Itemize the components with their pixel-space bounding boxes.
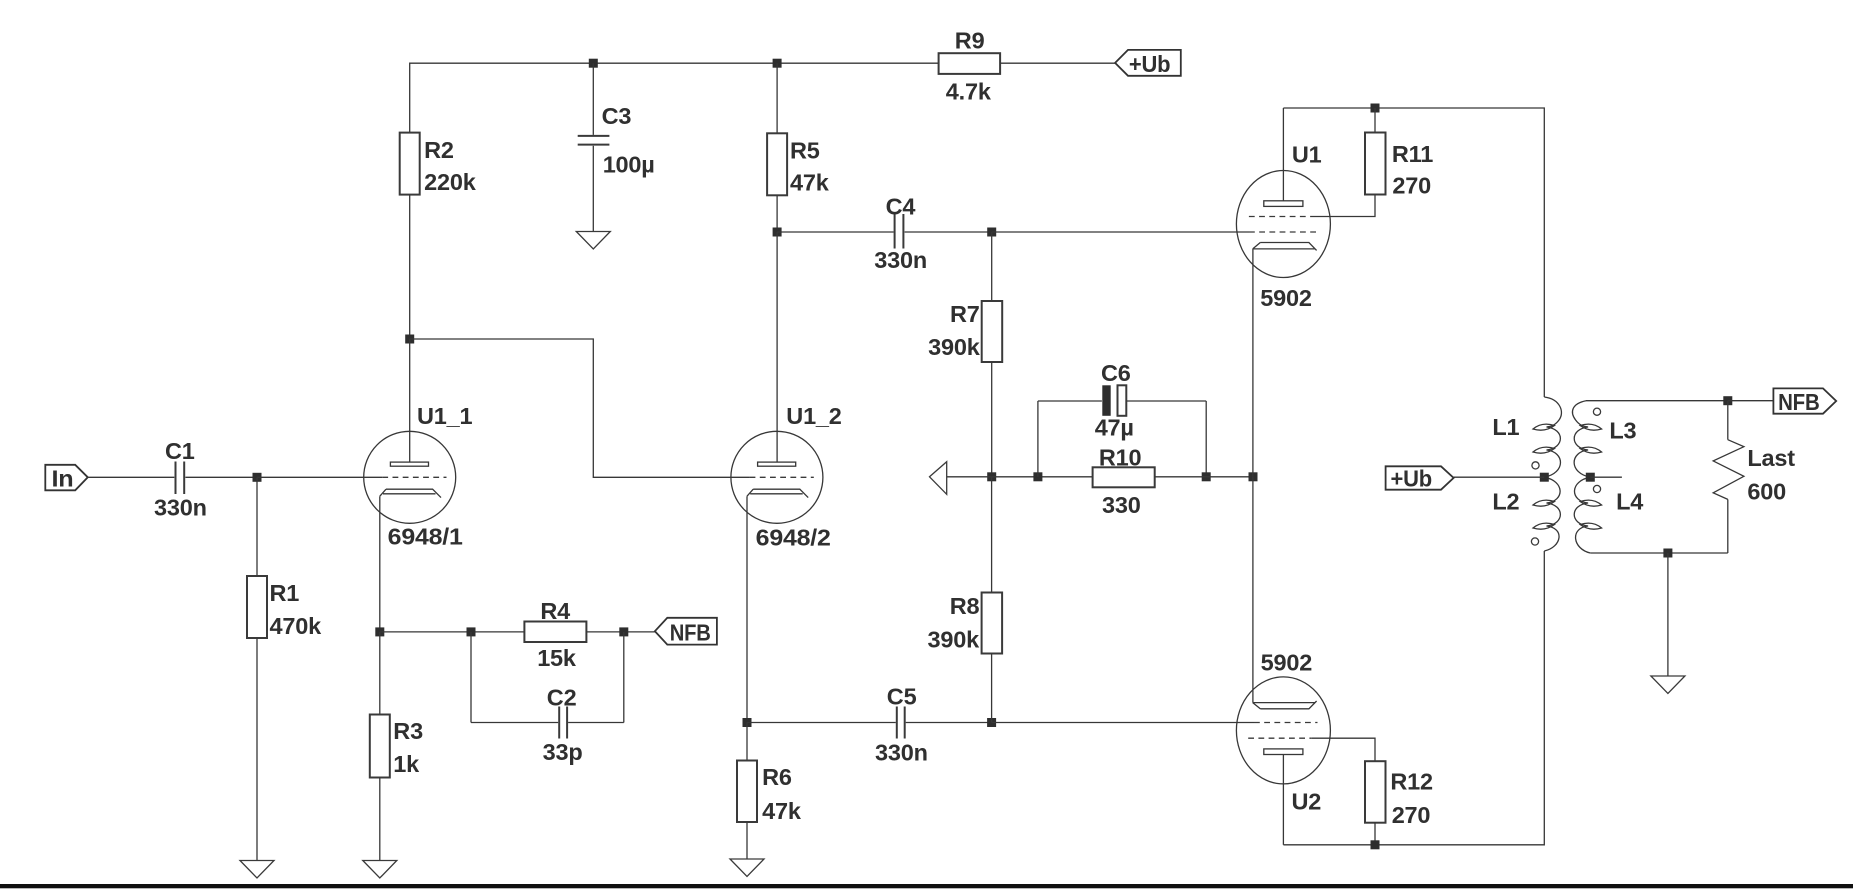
- U2 cathode: [1253, 701, 1317, 709]
- U2 screen grid dashes: [1248, 737, 1311, 739]
- wire R4 to NFB flag: [586, 631, 655, 633]
- svg-text:L3: L3: [1609, 418, 1636, 444]
- svg-text:NFB: NFB: [670, 619, 711, 645]
- wire U1_1 cathode to node C: [379, 496, 381, 632]
- wire node F to U1_2 anode: [776, 232, 778, 462]
- ground L4: [1651, 676, 1685, 694]
- node J junction R7/R8/row: [987, 472, 996, 481]
- capacitor C5: [875, 683, 928, 765]
- svg-text:R10: R10: [1099, 445, 1142, 471]
- bottom border bar: [0, 884, 1853, 888]
- U2 anode lead: [1282, 755, 1284, 845]
- wire node R to NFB flag: [1728, 400, 1774, 402]
- pentode U1: [1236, 142, 1330, 312]
- node F junction R5/C4 row: [773, 228, 782, 237]
- resistor R1: [247, 576, 322, 639]
- U1 screen grid dashes: [1249, 216, 1311, 218]
- triode U1_1: [364, 403, 473, 550]
- svg-text:C3: C3: [602, 103, 632, 129]
- node In connector flag: [45, 465, 88, 492]
- svg-text:5902: 5902: [1260, 285, 1312, 311]
- wire node I to U2 grid: [992, 722, 1254, 724]
- ground C3: [576, 232, 610, 250]
- wire In to C1: [88, 476, 175, 478]
- U1 control grid dashes: [1249, 231, 1320, 233]
- wire bottom rail: [1283, 551, 1544, 845]
- node L junction C6 right: [1202, 472, 1211, 481]
- inductor L3 secondary upper: [1572, 401, 1636, 478]
- resistor R6: [737, 761, 802, 824]
- svg-text:220k: 220k: [424, 169, 477, 195]
- wire C6 left branch: [1037, 401, 1039, 477]
- node Q junction secondary center tap: [1586, 473, 1595, 482]
- wire U1_2 cathode to node H: [746, 496, 748, 722]
- resistor R2: [400, 133, 477, 195]
- svg-text:470k: 470k: [270, 613, 323, 639]
- resistor R12: [1365, 761, 1433, 828]
- ground R6: [730, 859, 764, 877]
- node R junction NFB/Last: [1723, 396, 1732, 405]
- wire L3 top to NFB node: [1586, 400, 1728, 402]
- svg-text:R5: R5: [790, 137, 820, 163]
- node NFB mid connector flag: [655, 618, 717, 646]
- node D junction C2 left: [467, 627, 476, 636]
- node C junction cathode/R3/R4: [375, 627, 384, 636]
- svg-text:In: In: [52, 465, 74, 491]
- svg-text:330: 330: [1102, 492, 1141, 518]
- wire rail to R5: [776, 63, 778, 133]
- wire top rail left section: [410, 63, 939, 132]
- svg-text:R7: R7: [950, 301, 980, 327]
- node O junction R12 bottom: [1371, 840, 1380, 849]
- capacitor C6 electrolytic: [1095, 360, 1134, 441]
- svg-text:47k: 47k: [790, 170, 830, 196]
- wire R8 to node I: [991, 654, 993, 723]
- wire node G to R7: [991, 232, 993, 301]
- svg-text:C1: C1: [165, 438, 195, 464]
- svg-text:100µ: 100µ: [603, 151, 655, 177]
- svg-text:R9: R9: [955, 27, 985, 53]
- wire node H to C5: [747, 722, 896, 724]
- node B junction R2/anode/coupling: [405, 335, 414, 344]
- svg-text:L4: L4: [1616, 489, 1643, 515]
- svg-text:5902: 5902: [1261, 650, 1313, 676]
- wire U1 cathode to node M: [1252, 249, 1254, 477]
- inductor L2 primary lower: [1492, 477, 1560, 551]
- wire node R to Last: [1727, 401, 1729, 440]
- svg-text:390k: 390k: [928, 334, 981, 360]
- wire C3 top lead: [592, 63, 594, 135]
- ground R3: [363, 861, 397, 879]
- wire C2 right branch: [623, 632, 625, 723]
- wire R12 bottom lead: [1374, 823, 1376, 845]
- wire C2 bottom left: [471, 722, 558, 724]
- wire coupling node B to U1_2 grid: [410, 339, 750, 477]
- resistor R5: [767, 133, 830, 195]
- wire L4 bottom row: [1590, 552, 1728, 554]
- node M junction cathodes: [1249, 472, 1258, 481]
- resistor R3: [370, 715, 423, 778]
- node +Ub bottom connector flag: [1386, 465, 1454, 491]
- wire R1 to ground: [256, 638, 258, 861]
- wire R11 top lead: [1374, 108, 1376, 133]
- U1_1 grid dashes: [382, 476, 446, 478]
- svg-text:+Ub: +Ub: [1391, 465, 1433, 491]
- wire C6 top left: [1038, 400, 1102, 402]
- svg-text:C6: C6: [1101, 360, 1131, 386]
- svg-text:C2: C2: [547, 684, 577, 710]
- svg-text:R1: R1: [270, 580, 300, 606]
- svg-text:15k: 15k: [537, 645, 577, 671]
- wire node G to U1 grid: [992, 231, 1249, 233]
- node +Ub top connector flag: [1115, 50, 1181, 77]
- svg-text:4.7k: 4.7k: [946, 78, 992, 104]
- svg-text:600: 600: [1747, 479, 1786, 505]
- node I junction C5/R8: [987, 718, 996, 727]
- L4 phase dot: [1593, 485, 1600, 492]
- capacitor C2: [543, 684, 583, 764]
- U1 cathode: [1253, 243, 1317, 251]
- capacitor C1: [154, 438, 207, 521]
- svg-text:C5: C5: [887, 683, 917, 709]
- pentode U2: [1236, 650, 1330, 815]
- svg-text:330n: 330n: [875, 739, 928, 765]
- svg-text:U2: U2: [1292, 789, 1322, 815]
- wire node C to R3: [379, 632, 381, 715]
- svg-text:C4: C4: [886, 193, 916, 219]
- node H junction cathode/R6/C5: [743, 718, 752, 727]
- svg-text:390k: 390k: [928, 626, 981, 652]
- svg-text:R2: R2: [424, 137, 454, 163]
- node top rail / C3: [589, 59, 598, 68]
- svg-text:6948/1: 6948/1: [388, 524, 463, 550]
- resistor R11: [1365, 133, 1433, 199]
- wire C2 left branch: [470, 632, 472, 723]
- svg-text:R11: R11: [1392, 141, 1433, 167]
- inductor L1 primary upper: [1492, 397, 1561, 477]
- U1_2 cathode: [747, 489, 808, 497]
- wire node S to ground: [1667, 553, 1669, 676]
- inductor L4 secondary lower: [1574, 477, 1643, 553]
- wire node F to C4: [777, 231, 894, 233]
- resistor R9: [939, 27, 1001, 104]
- svg-text:Last: Last: [1747, 445, 1795, 471]
- node G junction C4/R7: [987, 228, 996, 237]
- wire R9 to +Ub: [1000, 62, 1115, 64]
- L1 phase dot: [1532, 462, 1539, 469]
- svg-text:U1_1: U1_1: [417, 403, 473, 429]
- wire +Ub to center tap: [1454, 476, 1545, 478]
- wire R3 to ground: [379, 778, 381, 861]
- node A junction C1/R1/grid: [253, 473, 262, 482]
- triode U1_2: [731, 403, 842, 550]
- U1_2 grid dashes: [750, 476, 814, 478]
- svg-text:R3: R3: [393, 718, 423, 744]
- wire arrow to node J: [947, 476, 992, 478]
- svg-text:R12: R12: [1390, 769, 1433, 795]
- U1_2 anode plate: [758, 462, 796, 466]
- svg-text:NFB: NFB: [1778, 389, 1820, 415]
- resistor R10: [1093, 445, 1155, 519]
- svg-text:270: 270: [1392, 173, 1431, 199]
- wire C3 to ground: [592, 146, 594, 232]
- capacitor C3: [578, 103, 655, 177]
- resistor R8: [928, 593, 1003, 654]
- svg-text:330n: 330n: [874, 247, 927, 273]
- wire R5 to node F: [776, 195, 778, 232]
- resistor R4: [524, 598, 586, 671]
- U1 anode lead: [1282, 108, 1284, 201]
- wire node A down to R1: [256, 477, 258, 576]
- resistor Last zigzag: [1713, 440, 1795, 505]
- U2 control grid dashes: [1254, 722, 1318, 724]
- svg-text:L1: L1: [1492, 414, 1519, 440]
- svg-text:R4: R4: [540, 598, 570, 624]
- wire U2 screen to R12: [1311, 738, 1375, 761]
- node K junction C6 left: [1033, 472, 1042, 481]
- svg-text:U1: U1: [1292, 142, 1322, 168]
- wire C2 bottom right: [568, 722, 624, 724]
- svg-text:330n: 330n: [154, 494, 207, 520]
- L3 phase dot: [1593, 408, 1600, 415]
- U1_1 cathode: [380, 489, 441, 497]
- resistor R7: [928, 301, 1002, 362]
- wire R6 to ground: [746, 822, 748, 859]
- svg-text:47µ: 47µ: [1095, 415, 1134, 441]
- node S junction ground branch: [1663, 549, 1672, 558]
- node N junction R11 top: [1371, 104, 1380, 113]
- wire node H to R6: [746, 723, 748, 761]
- wire Last to bottom row: [1727, 499, 1729, 553]
- svg-text:R6: R6: [762, 764, 792, 790]
- wire secondary center tap stub: [1590, 476, 1622, 478]
- wire U1 screen to R11: [1311, 195, 1375, 217]
- U1 anode plate: [1264, 201, 1303, 207]
- svg-text:L2: L2: [1492, 489, 1519, 515]
- svg-text:33p: 33p: [543, 739, 583, 765]
- capacitor C4: [874, 193, 927, 272]
- wire R10 to node M: [1155, 476, 1253, 478]
- wire C5 to node I: [906, 722, 992, 724]
- wire R2 to node B: [409, 195, 411, 339]
- wire anode rail top: [1283, 108, 1544, 397]
- wire C6 top right: [1127, 400, 1207, 402]
- U2 anode plate: [1264, 749, 1303, 755]
- wire C6 right branch: [1205, 401, 1207, 477]
- svg-text:47k: 47k: [762, 798, 802, 824]
- wire node C to R4: [380, 631, 525, 633]
- svg-text:1k: 1k: [393, 751, 420, 777]
- svg-text:+Ub: +Ub: [1129, 51, 1171, 77]
- svg-text:270: 270: [1392, 802, 1431, 828]
- node top rail / R5: [773, 59, 782, 68]
- node NFB top connector flag: [1773, 388, 1836, 415]
- wire node A to U1_1 grid: [257, 476, 382, 478]
- ground R1: [240, 861, 274, 879]
- U1_1 anode plate: [390, 462, 428, 466]
- wire node I to R8 top: [991, 477, 993, 593]
- L2 phase dot: [1531, 538, 1538, 545]
- wire R7 to node J: [991, 362, 993, 477]
- svg-text:6948/2: 6948/2: [756, 524, 831, 550]
- node E junction C2 right: [619, 627, 628, 636]
- wire C1 to node A: [185, 476, 257, 478]
- wire C4 to node G: [905, 231, 992, 233]
- arrow open connector: [930, 462, 947, 495]
- wire node J to R10: [992, 476, 1093, 478]
- svg-text:R8: R8: [950, 593, 980, 619]
- svg-text:U1_2: U1_2: [786, 403, 842, 429]
- node P junction primary center tap: [1540, 473, 1549, 482]
- wire node B to U1_1 anode: [409, 339, 411, 462]
- wire U2 cathode to node M: [1252, 477, 1254, 703]
